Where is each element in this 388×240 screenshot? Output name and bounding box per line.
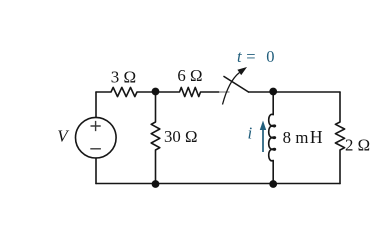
svg-text:6 Ω: 6 Ω [177,66,202,85]
svg-text:3 Ω: 3 Ω [111,67,136,86]
svg-text:2 Ω: 2 Ω [345,136,370,155]
svg-text:8mH: 8mH [283,127,323,147]
svg-text:i: i [248,123,253,142]
svg-text:30 Ω: 30 Ω [164,127,197,146]
